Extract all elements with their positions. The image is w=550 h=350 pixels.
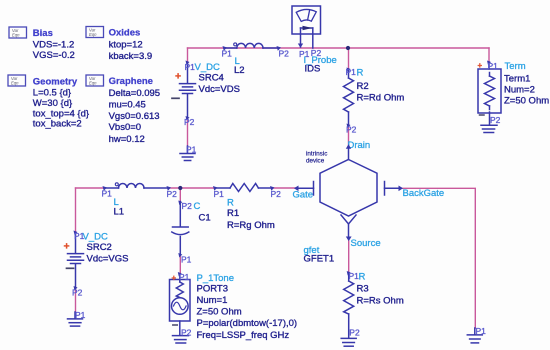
wire bottom rail left [76, 187, 104, 189]
svg-text:Eqn: Eqn [12, 33, 20, 38]
svg-text:+: + [478, 61, 483, 70]
svg-text:VGS=-0.2: VGS=-0.2 [33, 50, 75, 61]
svg-text:P2: P2 [279, 49, 290, 59]
svg-text:Vdc=VDS: Vdc=VDS [199, 84, 240, 95]
pin Gate arrow of GFET1 [294, 186, 299, 192]
svg-text:Eqn: Eqn [11, 81, 19, 86]
svg-text:P1: P1 [179, 272, 190, 282]
pin P1 of probe [298, 44, 303, 48]
svg-text:R=Rd Ohm: R=Rd Ohm [357, 93, 405, 104]
svg-text:Vbs0=0: Vbs0=0 [109, 122, 142, 133]
svg-text:P1: P1 [214, 189, 225, 199]
svg-text:IDS: IDS [305, 64, 321, 75]
svg-text:Freq=LSSP_freq GHz: Freq=LSSP_freq GHz [197, 330, 290, 341]
svg-text:SRC4: SRC4 [199, 73, 224, 84]
svg-text:Vgs0=0.613: Vgs0=0.613 [109, 111, 160, 122]
wire junction to C1 [179, 188, 181, 202]
svg-text:Term1: Term1 [504, 73, 530, 84]
wire Source to R3 [348, 241, 350, 273]
minus sign PORT3 [173, 324, 178, 326]
pin P1 of L2 [223, 46, 228, 51]
svg-text:BackGate: BackGate [403, 188, 445, 199]
svg-text:SRC2: SRC2 [87, 242, 112, 253]
svg-text:Vdc=VGS: Vdc=VGS [87, 254, 129, 265]
pin P1 of SRC4 [186, 61, 190, 66]
wire SRC4 top riser [187, 48, 189, 63]
ground of PORT3 [173, 336, 189, 343]
svg-text:Eqn: Eqn [89, 32, 97, 37]
svg-text:GFET1: GFET1 [304, 254, 335, 265]
inductor L1 [104, 183, 168, 188]
svg-text:Num=1: Num=1 [197, 295, 228, 306]
svg-text:P2: P2 [182, 201, 193, 211]
pin P2 of L2 [277, 46, 282, 51]
var equation Bias [9, 27, 75, 61]
dc source SRC2 [68, 233, 84, 288]
svg-text:P1: P1 [181, 255, 192, 265]
pin P1 of C1 [178, 253, 182, 258]
svg-text:L1: L1 [114, 207, 125, 218]
svg-text:C1: C1 [199, 213, 211, 224]
svg-text:R=Rs Ohm: R=Rs Ohm [357, 295, 404, 306]
svg-text:Z=50 Ohm: Z=50 Ohm [197, 307, 242, 318]
svg-text:P1: P1 [222, 49, 233, 59]
svg-text:P1: P1 [346, 67, 357, 77]
svg-text:device: device [306, 158, 325, 165]
svg-text:R=Rg Ohm: R=Rg Ohm [227, 220, 275, 231]
svg-text:P2: P2 [271, 189, 282, 199]
svg-text:P1: P1 [488, 61, 499, 71]
svg-text:L2: L2 [234, 65, 245, 76]
svg-text:R1: R1 [227, 208, 239, 219]
dc source SRC4 [180, 63, 196, 118]
minus sign SRC2 [67, 267, 74, 269]
wire C1 to PORT3 [179, 255, 181, 274]
pin Drain arrow of GFET1 [346, 144, 351, 149]
pin P1 of L1 [103, 186, 108, 191]
svg-text:W=30 {d}: W=30 {d} [33, 98, 72, 109]
pin P1 of SRC2 [74, 231, 78, 236]
svg-text:PORT3: PORT3 [197, 284, 229, 295]
svg-text:P2: P2 [184, 117, 195, 127]
current probe IDS [292, 6, 321, 48]
svg-text:C: C [194, 201, 201, 212]
wire BackGate to ground [403, 188, 475, 328]
current arrow of probe [303, 26, 313, 31]
wire SRC2 to ground [75, 288, 77, 313]
svg-text:P1: P1 [476, 326, 487, 336]
svg-text:P2: P2 [490, 115, 501, 125]
svg-text:P1: P1 [75, 310, 86, 320]
pin P1 of R2 [347, 68, 351, 73]
capacitor C1 [172, 202, 189, 256]
svg-text:P2: P2 [181, 328, 192, 338]
svg-text:kback=3.9: kback=3.9 [109, 51, 153, 62]
pin P2 of R1 [270, 186, 275, 191]
svg-text:Source: Source [351, 238, 381, 249]
pin P1 of PORT3 [178, 272, 182, 277]
svg-text:Eqn: Eqn [89, 81, 97, 86]
svg-text:mu=0.45: mu=0.45 [109, 99, 146, 110]
wire R2 to Drain [348, 125, 350, 147]
svg-text:Geometry: Geometry [33, 77, 78, 88]
terminal Term1 [478, 62, 501, 125]
svg-text:intrinsic: intrinsic [306, 151, 327, 158]
svg-text:+: + [175, 71, 181, 83]
svg-text:P2: P2 [72, 288, 83, 298]
svg-text:VDS=-1.2: VDS=-1.2 [33, 40, 74, 51]
ground of SRC4 [180, 146, 195, 161]
svg-text:Bias: Bias [33, 28, 53, 39]
svg-text:R: R [359, 271, 366, 282]
junction node top rail [346, 46, 350, 50]
svg-text:P1: P1 [102, 189, 113, 199]
pin P1 of R1 [213, 186, 218, 191]
svg-text:P2: P2 [346, 124, 357, 134]
svg-text:V_DC: V_DC [195, 62, 220, 73]
var equation Oxides [86, 27, 152, 63]
inductor L2 [224, 43, 278, 48]
wire SRC2 riser [75, 188, 77, 233]
svg-text:P2: P2 [349, 327, 360, 337]
wire SRC4 to ground [187, 118, 189, 147]
resistor R3 [344, 273, 354, 339]
svg-text:Delta=0.095: Delta=0.095 [109, 88, 161, 99]
svg-text:Num=2: Num=2 [504, 85, 535, 96]
ground of SRC2 [68, 312, 83, 326]
minus sign SRC4 [172, 97, 179, 99]
var equation Graphene [86, 75, 160, 145]
port P_1Tone PORT3 [170, 274, 191, 336]
svg-text:ktop=12: ktop=12 [109, 40, 143, 51]
pin P2 of R2 [347, 124, 351, 129]
svg-text:R2: R2 [357, 81, 369, 92]
ground of R3 [341, 338, 356, 346]
wire L1 to junction [168, 187, 215, 189]
svg-text:Oxides: Oxides [109, 28, 141, 39]
svg-text:P_1Tone: P_1Tone [197, 273, 235, 284]
resistor R1 [215, 184, 272, 192]
svg-text:P2: P2 [167, 189, 178, 199]
wire top rail [188, 47, 490, 49]
pin P2 of L1 [167, 186, 172, 191]
pin P2 of SRC2 [74, 286, 78, 291]
pin P2 of SRC4 [186, 116, 190, 121]
transistor GFET1 (gfet) [296, 147, 401, 238]
pin BackGate arrow of GFET1 [399, 186, 404, 192]
svg-text:+: + [172, 274, 177, 283]
svg-text:tox_back=2: tox_back=2 [33, 119, 82, 130]
svg-text:R3: R3 [357, 283, 369, 294]
pin Source arrow of GFET1 [346, 237, 352, 242]
svg-text:Term: Term [505, 61, 526, 72]
svg-text:Z=50 Ohm: Z=50 Ohm [504, 96, 549, 107]
wire Term1 riser [488, 48, 490, 62]
svg-text:hw=0.12: hw=0.12 [109, 134, 145, 145]
svg-text:P=polar(dbmtow(-17),0): P=polar(dbmtow(-17),0) [197, 318, 298, 329]
resistor R2 [344, 69, 354, 125]
svg-text:Gate: Gate [293, 189, 314, 200]
pin P1 of R3 [347, 271, 351, 276]
ground of BackGate net [467, 328, 482, 343]
wire R1 to Gate [272, 187, 296, 189]
wire R2 top [348, 48, 350, 69]
junction node bottom rail [178, 186, 182, 190]
pin P1 of Term1 [487, 61, 491, 66]
svg-text:Graphene: Graphene [109, 76, 153, 87]
var equation Geometry [8, 75, 89, 130]
svg-text:P1: P1 [186, 145, 197, 155]
minus sign Term1 [480, 114, 485, 116]
svg-text:R: R [357, 67, 364, 78]
svg-text:Drain: Drain [348, 140, 371, 151]
svg-text:+: + [64, 241, 70, 253]
ground of Term1 [481, 125, 497, 132]
pin P2 of C1 [178, 201, 182, 206]
